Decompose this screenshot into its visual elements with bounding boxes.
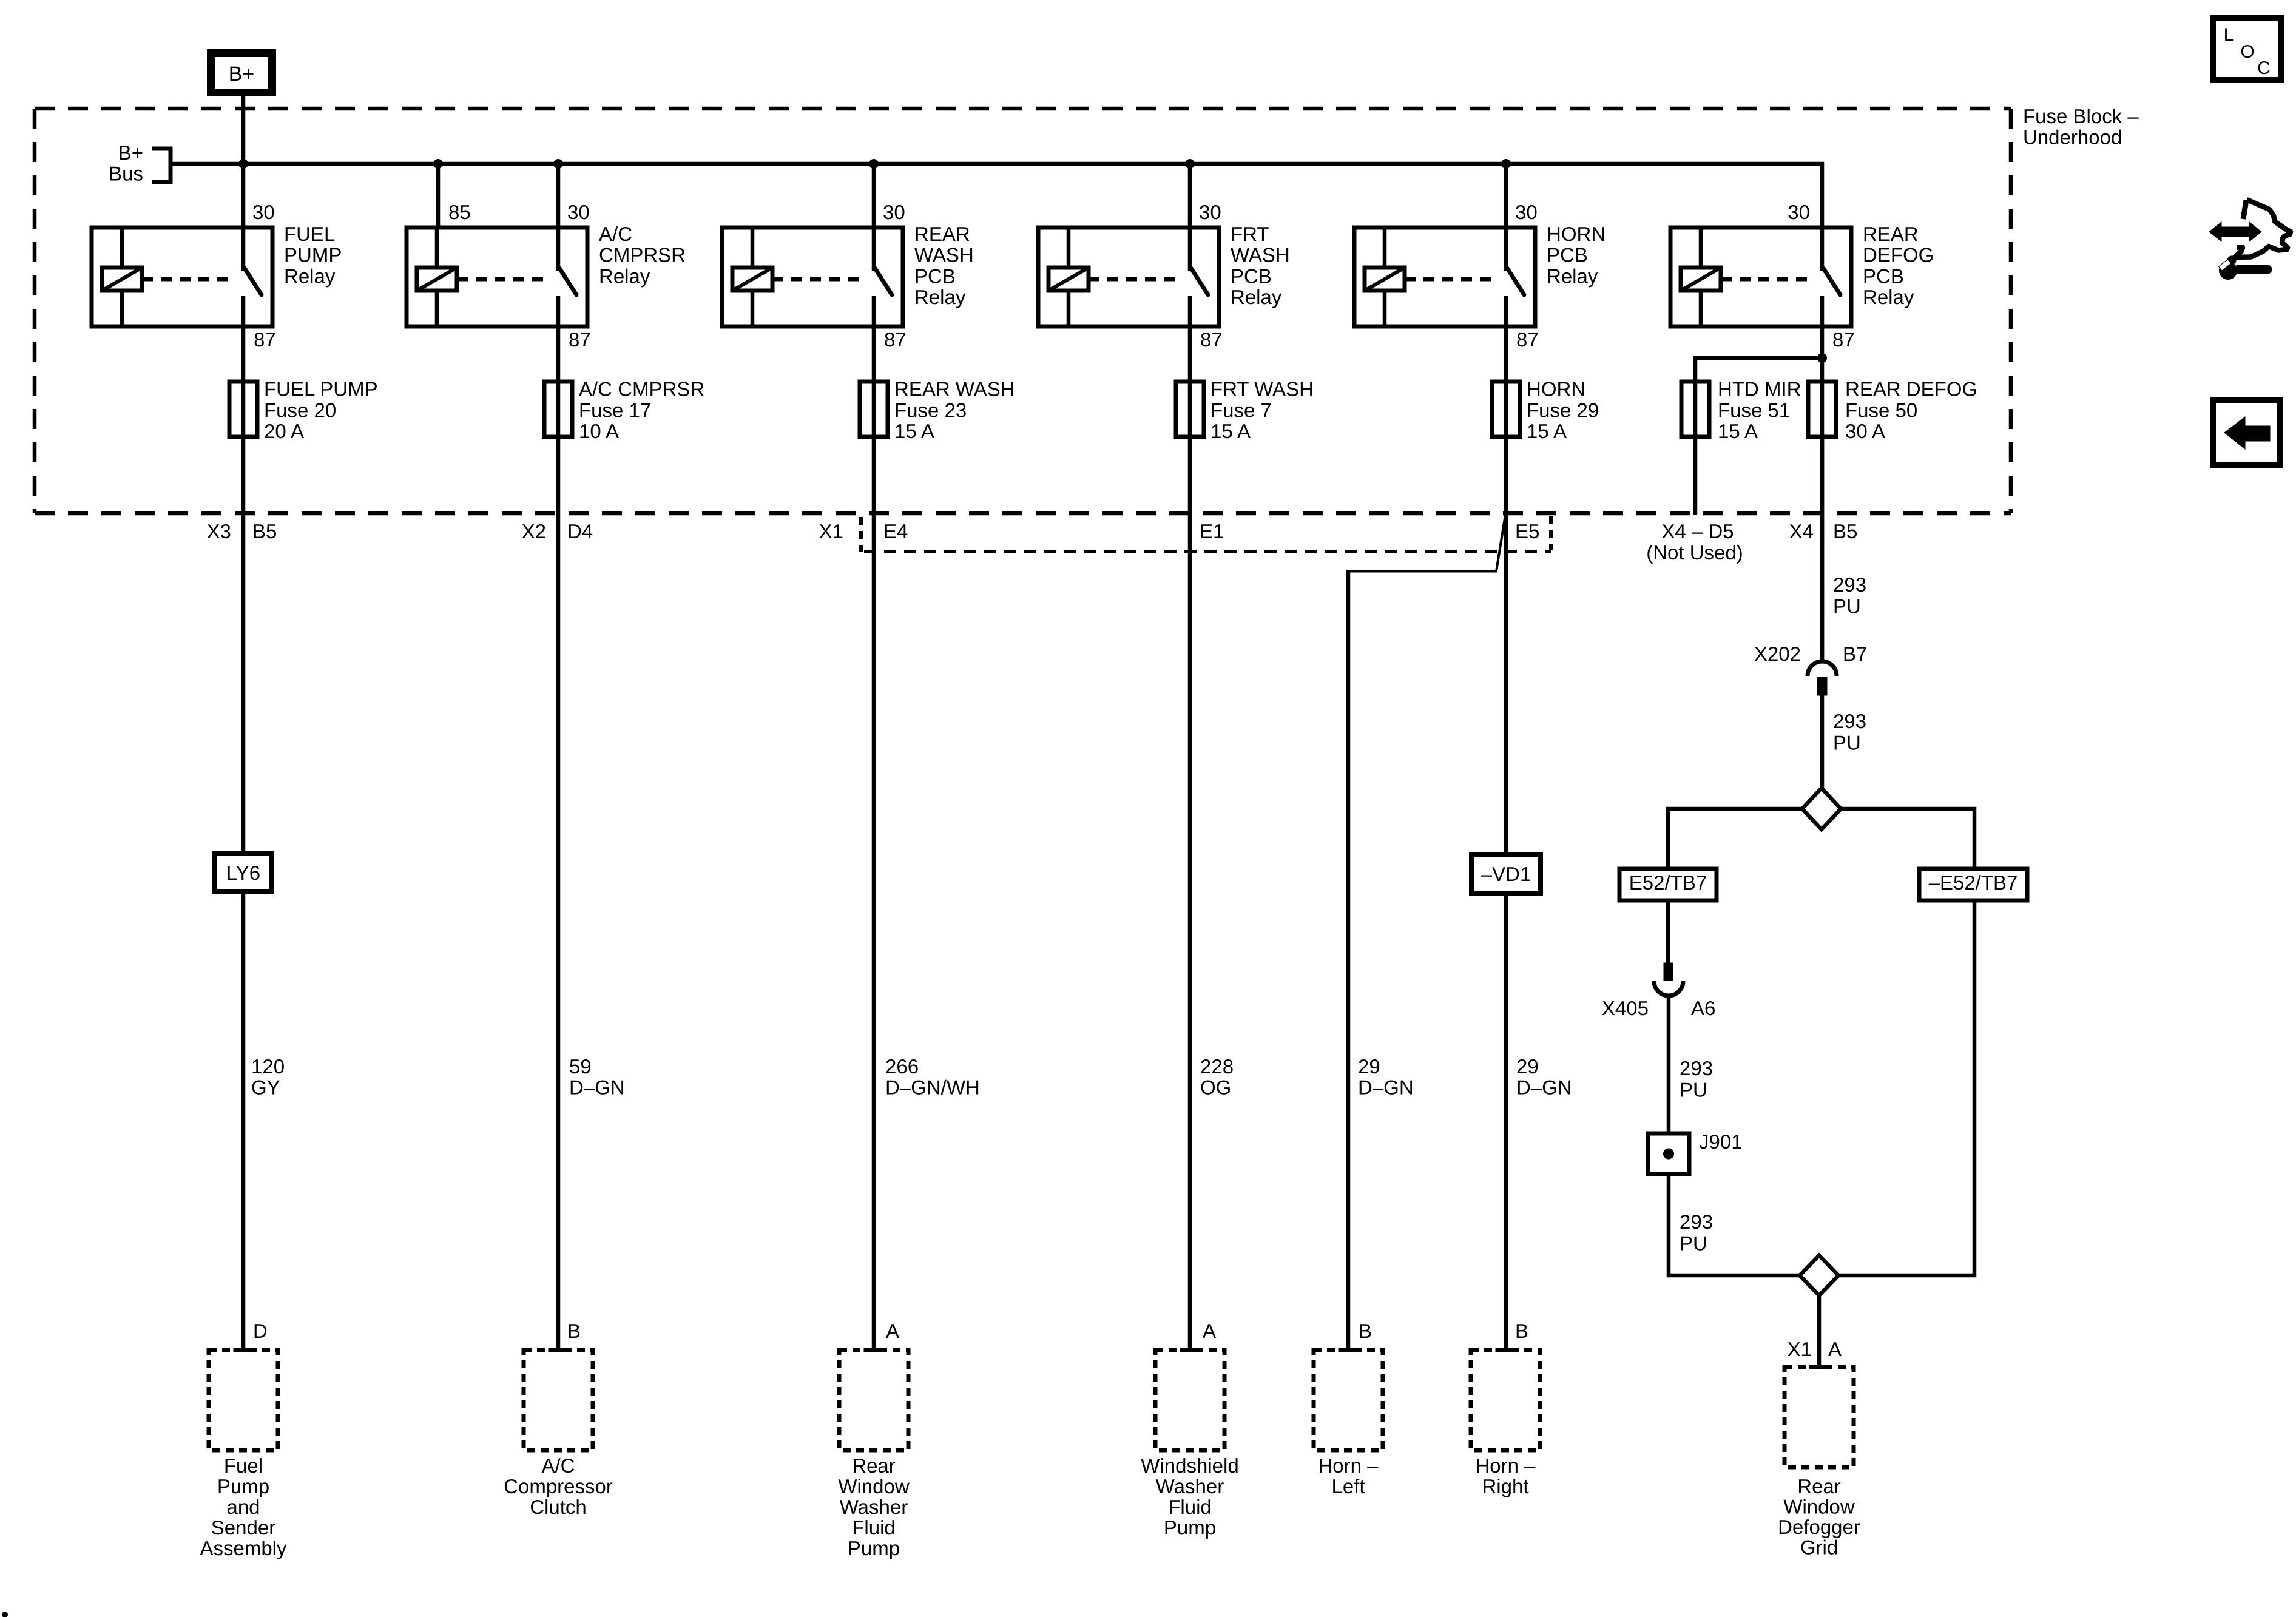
connector dashed box Fuel Pump and Sender Assembly [209, 1350, 278, 1450]
svg-text:Compressor: Compressor [504, 1475, 613, 1497]
wire 293 PU (X405 to J901) [1667, 996, 1671, 1133]
svg-text:Fluid: Fluid [852, 1516, 896, 1539]
relay FRT WASH PCB coil wire upper [1067, 228, 1071, 268]
svg-text:293: 293 [1833, 710, 1866, 732]
wire branch rear defog 87 to HTD MIR fuse 51 (X4-D5 not used) [1695, 358, 1822, 515]
svg-text:Relay: Relay [1231, 286, 1282, 308]
svg-text:PU: PU [1833, 732, 1861, 754]
svg-text:B: B [567, 1320, 581, 1342]
svg-text:REAR WASH: REAR WASH [894, 378, 1015, 400]
wire horn 87 / circuit 29 D-GN full column [1504, 326, 1508, 1350]
svg-text:Defogger: Defogger [1778, 1516, 1860, 1538]
wire 293 PU (J901 down) [1667, 1174, 1671, 1275]
wire bus to A/C relay pin 30 [556, 164, 561, 229]
relay FUEL PUMP coil [102, 268, 142, 291]
relay HORN PCB coil wire upper [1383, 228, 1387, 268]
relay REAR WASH PCB coil wire upper [751, 228, 755, 268]
connector dashed box Rear Window Washer Fluid Pump [839, 1350, 908, 1450]
relay FUEL PUMP coil wire upper [120, 228, 124, 268]
svg-text:266: 266 [885, 1055, 919, 1078]
relay FRT WASH PCB box [1038, 228, 1219, 326]
relay REAR DEFOG PCB coil-switch dashed link [1721, 277, 1815, 282]
svg-text:Relay: Relay [914, 286, 966, 308]
svg-text:B7: B7 [1843, 643, 1867, 665]
fuse Fuse 50 REAR DEFOG [1808, 382, 1836, 437]
terminal bar Horn - Left [1339, 1348, 1358, 1352]
svg-text:Fluid: Fluid [1168, 1496, 1212, 1518]
svg-text:Horn –: Horn – [1318, 1454, 1379, 1477]
svg-text:E1: E1 [1200, 520, 1224, 542]
svg-text:87: 87 [569, 328, 591, 351]
svg-text:293: 293 [1680, 1210, 1713, 1233]
relay A/C CMPRSR coil wire upper [435, 228, 439, 268]
relay FRT WASH PCB coil wire lower [1067, 291, 1071, 326]
wire bus to rear wash relay pin 30 [872, 164, 876, 229]
svg-text:Rear: Rear [1797, 1475, 1841, 1497]
svg-text:A: A [1828, 1338, 1842, 1360]
connector X1 dashed outline left end [859, 517, 863, 552]
svg-text:Washer: Washer [840, 1496, 908, 1518]
svg-text:E5: E5 [1515, 520, 1539, 542]
svg-text:B5: B5 [1833, 520, 1857, 542]
option code box LY6 [215, 854, 272, 891]
wire B+ bus [171, 164, 1822, 230]
svg-text:X1: X1 [819, 520, 843, 542]
wire frt wash 87 / circuit 228 OG full column [1188, 326, 1192, 1350]
svg-text:HORN: HORN [1547, 223, 1606, 245]
svg-text:DEFOG: DEFOG [1863, 244, 1934, 266]
relay FUEL PUMP coil-switch dashed link [142, 277, 236, 282]
relay HORN PCB box [1354, 228, 1535, 326]
svg-text:D–GN: D–GN [1516, 1076, 1572, 1099]
svg-text:X4: X4 [1789, 520, 1814, 542]
connector dashed box Rear Window Defogger Grid [1784, 1367, 1854, 1467]
svg-text:A6: A6 [1691, 997, 1715, 1019]
page mark dot bottom-left [2, 1612, 8, 1617]
svg-text:PUMP: PUMP [284, 244, 342, 266]
svg-text:REAR: REAR [1863, 223, 1919, 245]
connector X1 dashed outline bottom [864, 550, 1551, 553]
svg-text:30: 30 [1199, 201, 1221, 223]
svg-text:PU: PU [1680, 1232, 1707, 1255]
svg-text:REAR: REAR [914, 223, 970, 245]
icon vehicle outline with double arrow and wrench [2235, 200, 2291, 257]
svg-text:–VD1: –VD1 [1481, 863, 1531, 885]
relay FRT WASH PCB coil-switch dashed link [1089, 277, 1183, 282]
svg-text:30 A: 30 A [1845, 420, 1885, 442]
svg-text:Relay: Relay [599, 265, 650, 287]
fuse Fuse 23 REAR WASH [860, 382, 888, 437]
wire 293 PU (X202 to splice diamond) [1820, 695, 1825, 789]
svg-text:Window: Window [1783, 1496, 1855, 1518]
icon LOC box [2213, 18, 2281, 80]
svg-text:30: 30 [1788, 201, 1810, 223]
svg-text:Fuse 17: Fuse 17 [579, 399, 651, 421]
relay REAR WASH PCB switch [872, 228, 876, 271]
svg-text:15 A: 15 A [1210, 420, 1251, 442]
svg-text:20 A: 20 A [264, 420, 304, 442]
svg-text:87: 87 [254, 328, 276, 351]
connector dashed box Horn - Right [1471, 1350, 1540, 1450]
wire rear wash 87 / circuit 266 D-GN/WH full column [872, 326, 876, 1350]
inline connector X405 pin A6 [1664, 963, 1673, 981]
svg-text:Washer: Washer [1156, 1475, 1224, 1497]
relay HORN PCB coil [1365, 268, 1405, 291]
svg-text:85: 85 [448, 201, 471, 223]
relay REAR DEFOG PCB box [1670, 228, 1851, 326]
svg-text:PU: PU [1680, 1079, 1707, 1101]
svg-text:X3: X3 [207, 520, 231, 542]
svg-text:Fuel: Fuel [224, 1454, 263, 1477]
svg-text:PCB: PCB [1231, 265, 1272, 287]
svg-text:PCB: PCB [914, 265, 956, 287]
svg-text:Sender: Sender [211, 1516, 275, 1539]
wire A/C 87 / circuit 59 D-GN full column [556, 326, 561, 1350]
svg-text:87: 87 [1832, 328, 1855, 351]
relay FRT WASH PCB switch [1188, 228, 1192, 271]
wire -E52/TB7 to splice diamond lower [1838, 900, 1974, 1275]
icon back-arrow box [2213, 400, 2280, 465]
svg-text:and: and [226, 1496, 260, 1518]
svg-text:FUEL PUMP: FUEL PUMP [264, 378, 378, 400]
relay REAR WASH PCB coil wire lower [751, 291, 755, 326]
wire branch jog to horn left [1349, 515, 1505, 572]
relay FUEL PUMP box [92, 228, 272, 326]
svg-text:A: A [1203, 1320, 1216, 1342]
fuse Fuse 20 FUEL PUMP [229, 382, 257, 437]
wire J901 to splice diamond lower [1669, 1274, 1800, 1275]
svg-text:(Not Used): (Not Used) [1646, 541, 1743, 564]
svg-text:Pump: Pump [1164, 1516, 1216, 1539]
svg-text:WASH: WASH [914, 244, 974, 266]
svg-text:Horn –: Horn – [1475, 1454, 1536, 1477]
terminal bar Rear Window Washer Fluid Pump [864, 1348, 883, 1352]
wire bus to A/C relay pin 85 [436, 164, 441, 229]
svg-text:Windshield: Windshield [1141, 1454, 1238, 1477]
wire splice to E52/TB7 [1668, 809, 1802, 869]
relay A/C CMPRSR coil-switch dashed link [457, 277, 551, 282]
svg-text:Fuse Block –: Fuse Block – [2023, 105, 2139, 127]
svg-text:87: 87 [884, 328, 907, 351]
junction bus / horn pin 30 drop [1501, 159, 1511, 169]
svg-text:30: 30 [252, 201, 275, 223]
relay REAR WASH PCB coil [732, 268, 772, 291]
relay FUEL PUMP coil wire lower [120, 291, 124, 326]
relay FRT WASH PCB coil [1048, 268, 1089, 291]
svg-text:15 A: 15 A [894, 420, 934, 442]
connector dashed box A/C Compressor Clutch [524, 1350, 593, 1450]
terminal bar A/C Compressor Clutch [549, 1348, 568, 1352]
wire E52/TB7 to X405 [1666, 900, 1670, 963]
power symbol B+ [211, 53, 272, 93]
splice diamond upper [1802, 788, 1841, 829]
relay HORN PCB coil-switch dashed link [1405, 277, 1499, 282]
svg-text:B5: B5 [252, 520, 277, 542]
wire circuit 293 PU (fuse 50 down to X202) [1820, 437, 1825, 662]
svg-text:Fuse 29: Fuse 29 [1527, 399, 1599, 421]
wire circuit 29 D-GN to horn left [1346, 570, 1351, 1351]
svg-text:PCB: PCB [1547, 244, 1588, 266]
relay A/C CMPRSR box [407, 228, 587, 326]
svg-text:E52/TB7: E52/TB7 [1629, 871, 1707, 894]
svg-text:Fuse 20: Fuse 20 [264, 399, 336, 421]
svg-text:X2: X2 [522, 520, 546, 542]
svg-text:HTD MIR: HTD MIR [1718, 378, 1801, 400]
svg-text:Relay: Relay [284, 265, 336, 287]
svg-text:Fuse 50: Fuse 50 [1845, 399, 1917, 421]
B+ Bus tap bracket [152, 149, 171, 182]
wire splice to rear window defogger grid X1-A [1817, 1295, 1822, 1366]
svg-text:Relay: Relay [1547, 265, 1598, 287]
svg-text:A/C CMPRSR: A/C CMPRSR [579, 378, 704, 400]
svg-text:D: D [253, 1320, 268, 1342]
relay FUEL PUMP switch [241, 228, 246, 271]
svg-text:Left: Left [1331, 1475, 1365, 1497]
connector dashed box Horn - Left [1314, 1350, 1383, 1450]
junction bus / rear wash pin 30 drop [869, 159, 879, 169]
terminal bar Horn - Right [1496, 1348, 1515, 1352]
relay HORN PCB switch [1504, 228, 1508, 271]
svg-text:L: L [2224, 25, 2234, 45]
svg-text:Window: Window [838, 1475, 910, 1497]
option code box -VD1 [1471, 855, 1541, 893]
svg-text:A/C: A/C [541, 1454, 575, 1477]
svg-text:Fuse 7: Fuse 7 [1210, 399, 1272, 421]
svg-text:87: 87 [1200, 328, 1223, 351]
relay REAR DEFOG PCB coil wire upper [1699, 228, 1703, 268]
svg-text:E4: E4 [883, 520, 908, 542]
terminal bar Rear Window Defogger Grid [1809, 1365, 1829, 1369]
terminal bar Windshield Washer Fluid Pump [1180, 1348, 1200, 1352]
svg-text:15 A: 15 A [1718, 420, 1758, 442]
svg-text:30: 30 [883, 201, 905, 223]
svg-text:J901: J901 [1699, 1130, 1743, 1153]
svg-text:D–GN: D–GN [1358, 1076, 1414, 1099]
svg-text:Grid: Grid [1800, 1536, 1838, 1559]
svg-text:228: 228 [1200, 1055, 1234, 1078]
junction B+ feed / bus [238, 159, 248, 169]
svg-text:Underhood: Underhood [2023, 126, 2122, 149]
wire rear defog 87 / circuit 293 PU to X202 [1820, 326, 1825, 662]
svg-text:120: 120 [251, 1055, 285, 1078]
relay A/C CMPRSR coil wire lower [435, 291, 439, 326]
splice J901 [1648, 1133, 1689, 1174]
svg-text:B+: B+ [118, 141, 143, 164]
svg-text:C: C [2257, 58, 2271, 78]
svg-text:293: 293 [1680, 1057, 1713, 1079]
svg-text:30: 30 [1515, 201, 1538, 223]
svg-text:A/C: A/C [599, 223, 632, 245]
svg-text:87: 87 [1516, 328, 1539, 351]
svg-text:HORN: HORN [1527, 378, 1585, 400]
svg-text:WASH: WASH [1231, 244, 1290, 266]
connector dashed box Windshield Washer Fluid Pump [1155, 1350, 1224, 1450]
junction bus / A/C pin 30 drop [553, 159, 563, 169]
fuse Fuse 51 HTD MIR [1681, 382, 1709, 437]
svg-text:10 A: 10 A [579, 420, 619, 442]
relay REAR DEFOG PCB switch [1820, 228, 1825, 271]
svg-text:Fuse 51: Fuse 51 [1718, 399, 1790, 421]
svg-text:X4 – D5: X4 – D5 [1661, 520, 1734, 542]
connector X1 dashed outline right end [1549, 516, 1553, 550]
fuse Fuse 29 HORN [1492, 382, 1520, 437]
svg-text:CMPRSR: CMPRSR [599, 244, 686, 266]
relay REAR DEFOG PCB coil [1681, 268, 1721, 291]
svg-text:Assembly: Assembly [200, 1537, 287, 1559]
svg-text:293: 293 [1833, 573, 1866, 596]
wire B+ feed to fuel pump relay pin 30 [241, 96, 246, 229]
svg-text:59: 59 [569, 1055, 592, 1078]
svg-text:A: A [886, 1320, 899, 1342]
svg-text:FRT: FRT [1231, 223, 1269, 245]
svg-text:D4: D4 [567, 520, 593, 542]
relay REAR WASH PCB box [722, 228, 903, 326]
fuse block underhood dashed border [35, 107, 2011, 111]
fuse Fuse 17 A/C CMPRSR [544, 382, 572, 437]
svg-text:FUEL: FUEL [284, 223, 335, 245]
svg-text:Bus: Bus [109, 163, 143, 185]
junction bus / frt wash pin 30 drop [1185, 159, 1195, 169]
svg-text:Relay: Relay [1863, 286, 1914, 308]
svg-text:X202: X202 [1754, 643, 1801, 665]
relay REAR DEFOG PCB coil wire lower [1699, 291, 1703, 326]
svg-text:15 A: 15 A [1527, 420, 1567, 442]
svg-text:X1: X1 [1788, 1338, 1812, 1360]
svg-text:X405: X405 [1602, 997, 1649, 1019]
svg-text:Right: Right [1482, 1475, 1528, 1497]
inline connector X202 pin B7 [1808, 661, 1837, 676]
svg-text:Rear: Rear [852, 1454, 896, 1477]
wire bus to horn relay pin 30 [1504, 164, 1508, 229]
svg-text:Pump: Pump [217, 1475, 269, 1497]
svg-text:Fuse 23: Fuse 23 [894, 399, 967, 421]
svg-text:Clutch: Clutch [530, 1496, 587, 1518]
svg-text:FRT WASH: FRT WASH [1210, 378, 1314, 400]
svg-text:D–GN/WH: D–GN/WH [885, 1076, 980, 1099]
svg-text:LY6: LY6 [226, 862, 260, 884]
svg-text:B: B [1515, 1320, 1528, 1342]
option code box -E52/TB7 [1919, 869, 2027, 900]
wire fuel pump 87 / circuit 120 GY full column [241, 326, 246, 1350]
svg-text:OG: OG [1200, 1076, 1231, 1099]
relay HORN PCB coil wire lower [1383, 291, 1387, 326]
svg-text:PU: PU [1833, 595, 1861, 618]
wire splice to -E52/TB7 [1841, 809, 1974, 869]
svg-text:D–GN: D–GN [569, 1076, 625, 1099]
fuse Fuse 7 FRT WASH [1176, 382, 1204, 437]
relay A/C CMPRSR switch [556, 228, 561, 271]
junction bus / pin 85 drop [433, 159, 443, 169]
svg-text:B: B [1359, 1320, 1372, 1342]
svg-text:Pump: Pump [848, 1537, 900, 1559]
svg-text:PCB: PCB [1863, 265, 1904, 287]
svg-text:–E52/TB7: –E52/TB7 [1929, 871, 2018, 894]
relay REAR WASH PCB coil-switch dashed link [772, 277, 866, 282]
svg-text:B+: B+ [229, 62, 255, 86]
svg-text:29: 29 [1358, 1055, 1380, 1078]
terminal bar Fuel Pump and Sender Assembly [234, 1348, 253, 1352]
wire bus to frt wash relay pin 30 [1188, 164, 1192, 229]
relay A/C CMPRSR coil [417, 268, 457, 291]
svg-text:O: O [2240, 42, 2254, 62]
option code box E52/TB7 [1619, 869, 1717, 900]
svg-text:REAR DEFOG: REAR DEFOG [1845, 378, 1977, 400]
svg-text:29: 29 [1516, 1055, 1539, 1078]
splice diamond lower [1800, 1255, 1838, 1295]
svg-text:30: 30 [567, 201, 590, 223]
junction defog 87 / HTD MIR branch [1817, 353, 1827, 363]
svg-text:GY: GY [251, 1076, 280, 1099]
